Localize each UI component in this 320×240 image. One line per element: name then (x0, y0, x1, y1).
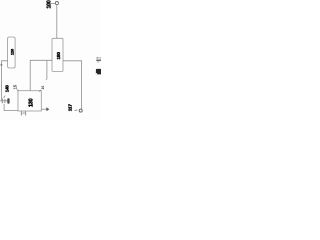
svg-text:100: 100 (46, 0, 52, 8)
svg-text:140: 140 (5, 85, 10, 93)
svg-text:16: 16 (41, 86, 45, 90)
svg-text:130: 130 (28, 98, 34, 107)
svg-text:117: 117 (68, 104, 74, 112)
svg-text:15: 15 (13, 84, 18, 89)
svg-text:120: 120 (10, 48, 15, 55)
svg-text:150: 150 (56, 52, 62, 60)
